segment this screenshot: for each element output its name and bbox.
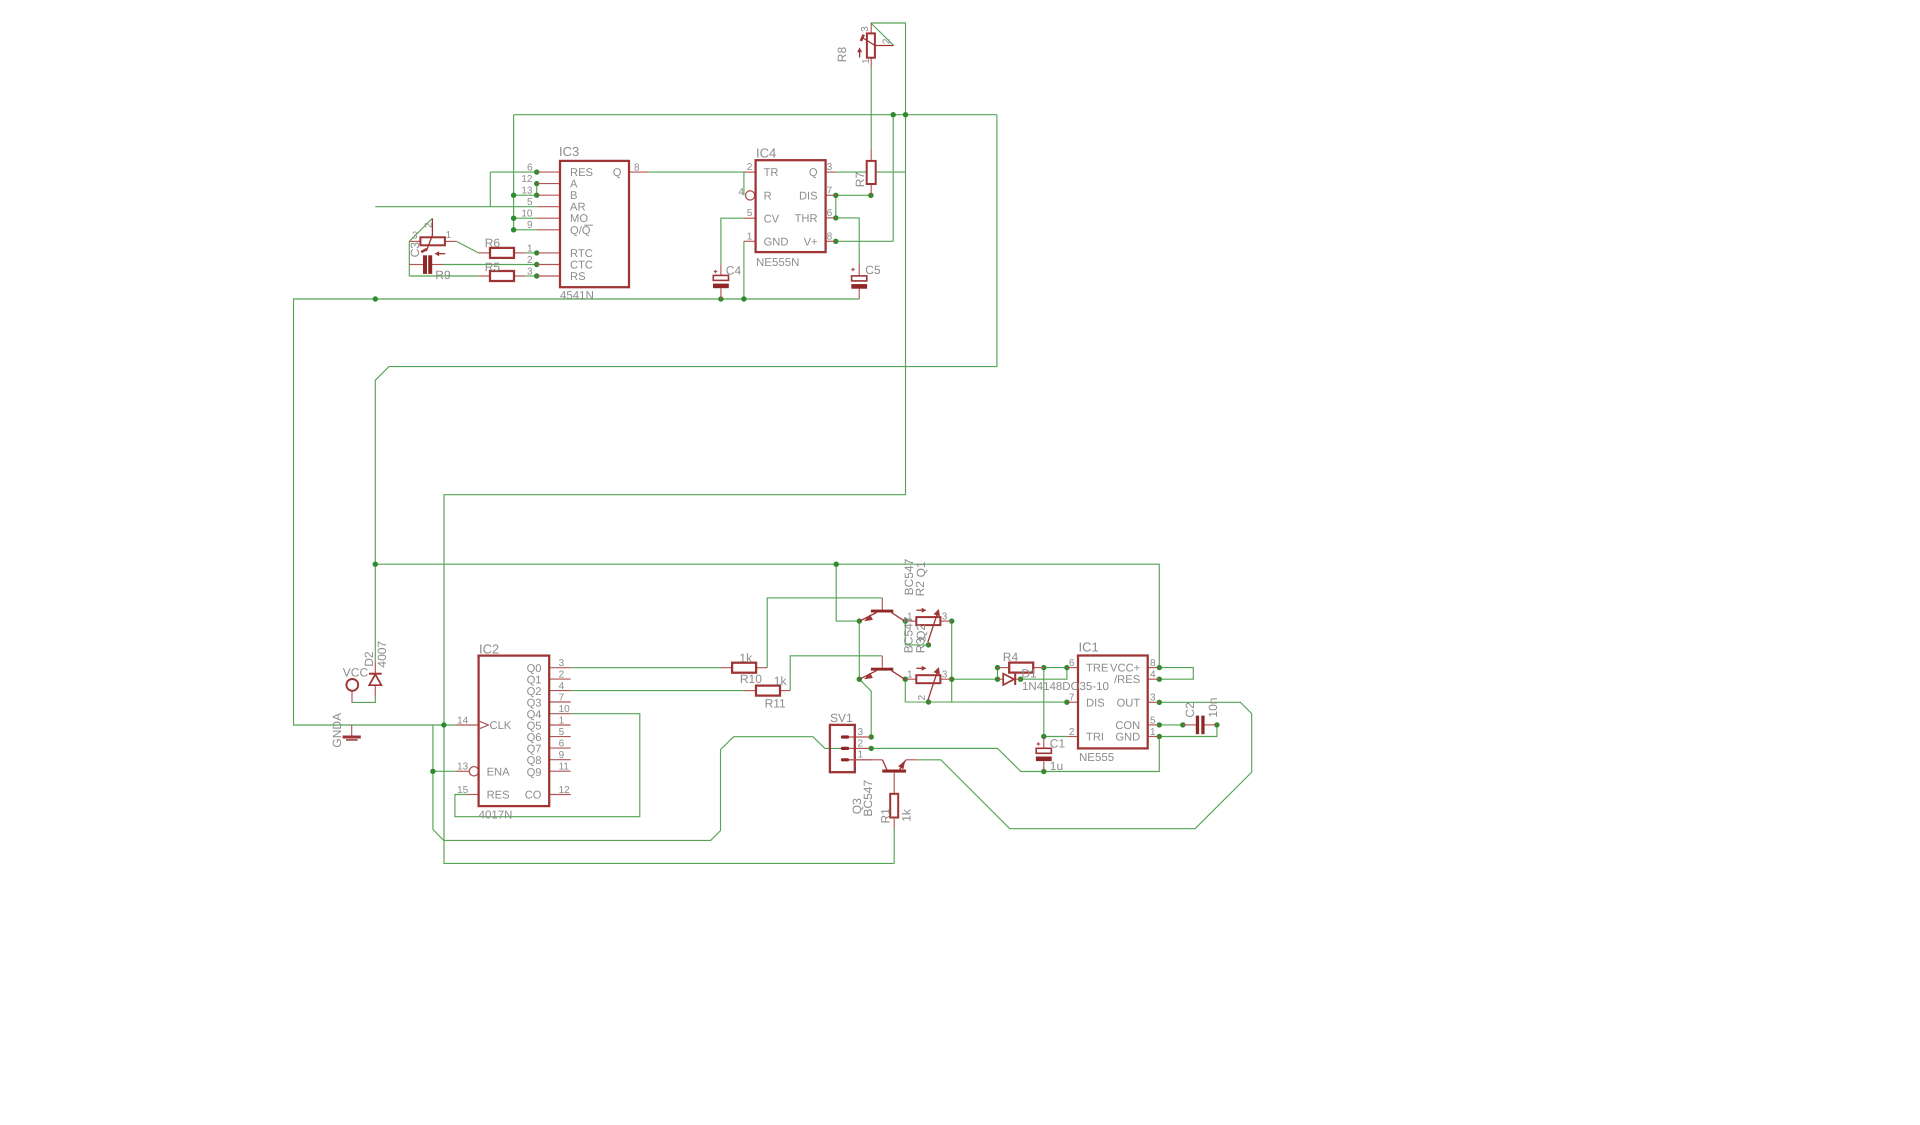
pin stub IC2 right y702 <box>549 701 571 703</box>
svg-text:11: 11 <box>559 762 570 773</box>
svg-text:VCC+: VCC+ <box>1110 663 1140 675</box>
svg-text:CV: CV <box>764 213 780 225</box>
wire IC2 ENA pin13 <box>433 770 456 772</box>
svg-text:DIS: DIS <box>799 190 818 202</box>
pin stub IC2 RES pin15 <box>467 794 479 796</box>
svg-text:IC3: IC3 <box>559 144 579 159</box>
svg-text:1k: 1k <box>774 674 788 688</box>
pin stub IC3 left y207 <box>537 206 560 208</box>
transistor Q3 <box>882 770 906 773</box>
svg-text:AR: AR <box>570 202 586 214</box>
lead C1 bottom <box>1043 762 1045 772</box>
wire IC4 THR to C5 <box>836 218 859 264</box>
svg-text:Q1: Q1 <box>527 674 542 686</box>
svg-text:C4: C4 <box>726 263 742 277</box>
junction IC4 DIS <box>833 193 838 198</box>
junction SV1 pin2 <box>869 746 874 751</box>
junction C2 left <box>1180 722 1185 727</box>
svg-text:Q1: Q1 <box>914 561 928 577</box>
trimmer R8 body <box>867 33 875 57</box>
pin stub IC3 Q pin8 <box>629 171 648 173</box>
trimmer R3 adjust arrow <box>916 667 923 669</box>
pin stub IC3 left y264 <box>537 264 560 266</box>
resistor R10 <box>732 663 756 673</box>
svg-text:GND: GND <box>764 236 789 248</box>
wire IC2 Q2 to R11 <box>571 690 744 692</box>
svg-text:12: 12 <box>521 174 533 185</box>
trimmer R9 adjust arrow <box>438 253 445 255</box>
IC2 CLK triangle <box>479 721 489 729</box>
wire ground trunk: y299 rail, x293 left trunk, CLK wire y725 <box>294 299 860 725</box>
svg-text:Q8: Q8 <box>527 755 542 767</box>
pin stub IC3 left y195 <box>537 194 560 196</box>
lead VCC <box>351 691 353 702</box>
diode D2 <box>369 674 381 685</box>
lead C1 top <box>1043 737 1045 749</box>
junction VCC rail / trunk <box>373 562 378 567</box>
op-amp IC1 NE555 box <box>1078 656 1148 749</box>
junction R2 pin1 <box>903 618 908 623</box>
junction CLK <box>441 722 446 727</box>
svg-text:3: 3 <box>412 231 418 242</box>
pin stub IC4 left y172 <box>744 171 756 173</box>
svg-text:4: 4 <box>1150 670 1156 681</box>
trimmer R2 wiper arrowhead <box>934 609 940 616</box>
svg-text:CLK: CLK <box>490 720 512 732</box>
wire IC2 Q0 to R10 <box>571 667 721 669</box>
pin stub IC3 left y253 <box>537 252 560 254</box>
transistor Q2 emitter arrow <box>864 673 873 680</box>
wire R9 pin3 down to RS net <box>408 241 410 276</box>
svg-text:15: 15 <box>457 785 469 796</box>
pin stub IC3 left y184 <box>537 183 560 185</box>
svg-text:6: 6 <box>527 163 533 174</box>
wire IC3 Q/Q pin9 <box>514 229 537 231</box>
svg-text:IC2: IC2 <box>479 642 499 657</box>
wire IC1 VCC+ to /RES loop <box>1159 668 1193 680</box>
pin stub IC4 left y241 <box>744 240 756 242</box>
wire R3 pin3 to D1 anode <box>952 678 998 680</box>
junction R3 pin1 <box>903 677 908 682</box>
wire VCC rail y564 to IC1 VCC+ <box>375 564 1160 667</box>
lead C3 left <box>409 264 423 266</box>
trimmer R3 wiper <box>928 671 938 700</box>
svg-text:4: 4 <box>559 681 565 692</box>
svg-text:3: 3 <box>827 162 833 173</box>
wire R9 pin3-pin2 diagonal <box>409 218 432 241</box>
svg-text:1: 1 <box>858 750 864 761</box>
svg-text:R1: R1 <box>878 808 892 824</box>
svg-text:CTC: CTC <box>570 259 593 271</box>
lead GNDA <box>351 725 353 736</box>
transistor Q1 emitter arrow <box>864 615 873 622</box>
op-amp IC3 4541N box <box>560 161 629 287</box>
lead Q3 collector pin <box>849 759 882 761</box>
svg-text:/RES: /RES <box>1114 674 1140 686</box>
trimmer R9 wiper <box>426 219 432 252</box>
junction x514 B row <box>511 193 516 198</box>
svg-text:8: 8 <box>634 163 640 174</box>
svg-text:Q3: Q3 <box>527 697 542 709</box>
svg-text:1: 1 <box>907 612 913 623</box>
svg-text:MO: MO <box>570 213 588 225</box>
svg-text:10n: 10n <box>1206 698 1220 718</box>
capacitor C4 plus <box>714 270 718 274</box>
pin stub SV1 y748 <box>849 747 871 749</box>
svg-text:7: 7 <box>1069 693 1075 704</box>
svg-text:C1: C1 <box>1050 737 1066 751</box>
pin stub IC1 right y725 <box>1148 724 1160 726</box>
svg-text:R: R <box>764 190 772 202</box>
pin stub IC2 right y668 <box>549 667 571 669</box>
svg-text:IC1: IC1 <box>1079 640 1099 655</box>
svg-text:Q/Q: Q/Q <box>570 225 591 237</box>
junction y299 / trunk <box>373 296 378 301</box>
pin stub IC1 right y702 <box>1148 701 1160 703</box>
lead C5 bottom <box>858 288 860 299</box>
wire IC4 GND pin1 down <box>743 241 745 299</box>
svg-text:3: 3 <box>527 266 533 277</box>
pin stub IC1 right y736 <box>1148 736 1160 738</box>
pin 4 inversion circle IC4 R <box>746 191 755 200</box>
capacitor C1 plus <box>1037 742 1041 746</box>
wire ENA net loop to SV1 pin2 <box>433 725 871 840</box>
wire Q2 emitter diagonal to SV1 pin3 <box>859 679 871 737</box>
svg-text:Q4: Q4 <box>527 709 542 721</box>
lead Q1 collector <box>891 613 904 622</box>
lead R7 bottom <box>870 184 872 195</box>
wire SV1 pin2 to C1- and IC1 GND <box>871 737 1159 772</box>
wire IC4 V+ riser to top rail <box>892 115 894 242</box>
svg-text:6: 6 <box>1069 658 1075 669</box>
svg-text:CON: CON <box>1115 720 1140 732</box>
wire R8 pin3-pin2 diagonal <box>871 23 894 46</box>
resistor R4 <box>1009 663 1033 673</box>
svg-text:1: 1 <box>559 715 565 726</box>
resistor R7 <box>867 161 876 184</box>
svg-text:2: 2 <box>559 670 565 681</box>
wire IC4 CV to C4 <box>721 218 744 264</box>
lead R1 bottom <box>893 818 895 829</box>
svg-text:RTC: RTC <box>570 248 593 260</box>
pin stub IC2 ENA pin13 <box>456 770 469 772</box>
svg-text:2: 2 <box>858 738 864 749</box>
svg-text:Q5: Q5 <box>527 721 542 733</box>
svg-text:8: 8 <box>827 231 833 242</box>
pin stub IC4 right y218 <box>826 217 836 219</box>
svg-text:13: 13 <box>457 762 469 773</box>
svg-text:1: 1 <box>527 243 533 254</box>
trimmer R2 wiper <box>928 613 938 642</box>
svg-text:R10: R10 <box>740 672 762 686</box>
svg-text:6: 6 <box>559 739 565 750</box>
lead R9 pin1 <box>445 240 457 242</box>
trimmer R9 wiper slot <box>421 249 427 252</box>
svg-text:DIS: DIS <box>1086 697 1105 709</box>
lead R6 left <box>478 252 490 254</box>
svg-text:1k: 1k <box>739 651 753 665</box>
lead R10 right <box>756 667 767 669</box>
svg-text:NE555: NE555 <box>1079 752 1114 764</box>
pin stub IC2 right y737 <box>549 736 571 738</box>
wire RES to AR riser <box>489 172 491 207</box>
lead C2 right <box>1205 724 1217 726</box>
svg-text:1: 1 <box>907 670 913 681</box>
wire top horizontal rail y115 <box>514 114 997 116</box>
lead C4 bottom <box>720 288 722 299</box>
lead C5 top <box>858 264 860 276</box>
svg-text:Q9: Q9 <box>527 767 542 779</box>
wire R9 pin1 diagonal to R6 <box>457 241 479 253</box>
pin stub IC1 left y736 <box>1067 736 1078 738</box>
svg-text:1: 1 <box>1150 727 1156 738</box>
pin stub IC4 right y172 <box>826 171 836 173</box>
wire IC1 CON to C2 <box>1159 724 1183 726</box>
svg-text:Q: Q <box>613 167 622 179</box>
junction C2 right <box>1214 722 1219 727</box>
junction IC1 VCC+ <box>1157 665 1162 670</box>
svg-text:R5: R5 <box>485 260 501 274</box>
pin stub IC2 right y794 <box>549 794 571 796</box>
lead D1 cathode <box>1016 678 1020 680</box>
svg-text:TR: TR <box>764 167 779 179</box>
svg-text:1k: 1k <box>900 808 914 822</box>
wire C3 to IC3 CTC pin2 <box>444 264 537 266</box>
junction C1 bottom <box>1041 769 1046 774</box>
pin 13 inversion circle IC2 ENA <box>469 767 478 776</box>
lead Q1 emitter <box>860 613 877 622</box>
pin stub IC2 right y725 <box>549 724 571 726</box>
svg-text:1u: 1u <box>1050 759 1063 773</box>
wire R8 pin1 to R7 <box>870 68 872 150</box>
junction x514 QQ row <box>511 227 516 232</box>
pin stub IC4 right y195 <box>826 194 836 196</box>
lead R6 right <box>514 252 526 254</box>
wire R3 pin1 to wiper rail to IC1 DIS <box>905 679 1067 702</box>
wire IC3 Q8 to IC4 TR and R <box>648 172 744 195</box>
op-amp IC2 4017N box <box>479 656 550 807</box>
svg-text:Q6: Q6 <box>527 732 542 744</box>
junction D1 cathode <box>1018 677 1023 682</box>
svg-text:3: 3 <box>858 727 864 738</box>
junction R4 right <box>1041 665 1046 670</box>
svg-text:1: 1 <box>861 58 872 64</box>
wire R6 to IC3 RTC pin1 <box>526 252 537 254</box>
wire IC1 GND to C2 right <box>1159 725 1217 737</box>
svg-text:GND: GND <box>1115 732 1140 744</box>
svg-text:R8: R8 <box>835 47 849 63</box>
lead Q3 emitter <box>906 759 917 761</box>
wire vertical x514 rail to IC3 B/MO/QQ <box>513 115 515 230</box>
lead R7 top <box>870 150 872 161</box>
pin stub IC4 right y241 <box>826 240 836 242</box>
lead R4 right <box>1033 667 1044 669</box>
wire VCC rail to Q1 emitter node <box>836 564 859 621</box>
junction IC3 A <box>534 181 539 186</box>
wire R10 to Q1 base <box>767 598 882 668</box>
svg-text:6: 6 <box>827 208 833 219</box>
svg-text:2: 2 <box>1069 727 1075 738</box>
wire IC3 A-B tie <box>536 184 538 196</box>
pin stub IC3 left y172 <box>537 171 560 173</box>
junction IC4 V+ <box>833 239 838 244</box>
pin stub IC3 left y230 <box>537 229 560 231</box>
junction top rail / V+ riser <box>891 112 896 117</box>
svg-text:B: B <box>570 190 577 202</box>
junction IC4 THR <box>833 215 838 220</box>
junction IC1 TRE <box>1064 665 1069 670</box>
svg-text:1: 1 <box>747 231 753 242</box>
svg-text:OUT: OUT <box>1117 697 1141 709</box>
wire R8 top / IC4 Q net long run to R1 bottom <box>444 23 906 863</box>
svg-text:4541N: 4541N <box>560 290 594 302</box>
lead R2 pin1 <box>905 620 916 622</box>
trimmer R8 wiper <box>862 38 894 46</box>
junction D1 anode <box>995 677 1000 682</box>
junction R7 bottom <box>868 193 873 198</box>
trimmer R9 body <box>420 237 445 245</box>
ground GNDA bar <box>343 736 361 739</box>
lead C3 right <box>432 264 444 266</box>
wire D1 cathode up to TRE <box>1021 668 1067 680</box>
svg-text:GNDA: GNDA <box>330 713 344 748</box>
svg-text:TRI: TRI <box>1086 732 1104 744</box>
pin stub IC2 right y679 <box>549 678 571 680</box>
svg-text:CO: CO <box>525 790 542 802</box>
junction IC3 B <box>534 193 539 198</box>
lead R4 left <box>998 667 1010 669</box>
svg-text:Q2: Q2 <box>527 686 542 698</box>
connector SV1 pin bar 1 <box>841 758 849 761</box>
pin stub IC1 right y679 <box>1148 678 1160 680</box>
junction IC3 RTC <box>534 250 539 255</box>
wire IC3 RES pin6 <box>490 171 536 173</box>
svg-text:13: 13 <box>521 186 533 197</box>
svg-text:2: 2 <box>424 222 435 228</box>
wire IC2 Q4 loop to RES pin15 <box>455 714 640 817</box>
svg-text:RES: RES <box>570 167 593 179</box>
capacitor C5 plates <box>852 276 867 281</box>
wire IC4 DIS to R7 bottom <box>836 194 871 196</box>
wire IC4 Q pin3 under R7 <box>836 171 906 173</box>
wire right rail down, across y367, chamfer, trunk x375 to D2 <box>375 115 997 662</box>
junction IC3 CTC <box>534 262 539 267</box>
junction VCC rail / Q1 branch <box>834 562 839 567</box>
junction x514 MO row <box>511 216 516 221</box>
resistor R6 <box>490 248 514 258</box>
junction C4 bottom <box>718 296 723 301</box>
wire IC1 OUT loop to Q3 emitter <box>917 702 1251 828</box>
svg-text:9: 9 <box>527 220 533 231</box>
lead C4 top <box>720 264 722 275</box>
transistor Q1 <box>871 610 893 613</box>
pin stub IC4 left y218 <box>744 217 756 219</box>
transistor Q3 emitter arrow <box>898 760 905 769</box>
junction SV1 pin3 <box>869 734 874 739</box>
connector SV1 box <box>830 725 855 772</box>
svg-text:5: 5 <box>527 197 533 208</box>
svg-text:7: 7 <box>827 185 833 196</box>
lead R10 left <box>720 667 732 669</box>
svg-text:3: 3 <box>942 670 948 681</box>
wire IC3 B pin13 <box>514 194 537 196</box>
wire R1 bottom segment <box>893 828 895 863</box>
junction Q2 emitter <box>857 677 862 682</box>
pin stub IC2 right y691 <box>549 690 571 692</box>
wire IC3 MO pin10 <box>514 217 537 219</box>
lead C2 left <box>1183 724 1196 726</box>
junction R3 wiper <box>926 699 931 704</box>
lead D2 anode <box>374 685 376 696</box>
power VCC circle <box>346 679 358 691</box>
svg-text:Q: Q <box>809 167 818 179</box>
lead R11 left <box>744 690 756 692</box>
svg-text:3: 3 <box>1150 693 1156 704</box>
svg-text:1N4148DO35-10: 1N4148DO35-10 <box>1022 681 1109 693</box>
svg-text:A: A <box>570 179 578 191</box>
svg-text:14: 14 <box>457 715 469 726</box>
svg-text:5: 5 <box>747 208 753 219</box>
svg-text:3: 3 <box>559 658 565 669</box>
lead R5 left <box>478 275 490 277</box>
svg-text:R7: R7 <box>853 172 867 188</box>
svg-text:SV1: SV1 <box>830 711 853 725</box>
svg-text:5: 5 <box>559 727 565 738</box>
junction ENA branch <box>430 769 435 774</box>
op-amp IC4 NE555N box <box>756 160 826 252</box>
svg-text:4: 4 <box>738 187 744 198</box>
lead R3 pin2 <box>928 700 930 702</box>
wire TRE node down to TRI/C1 <box>1044 668 1067 737</box>
svg-text:2: 2 <box>882 38 893 44</box>
svg-text:C3: C3 <box>408 242 422 258</box>
pin stub IC2 right y748 <box>549 747 571 749</box>
pin stub IC2 right y760 <box>549 759 571 761</box>
pin stub SV1 y737 <box>849 736 871 738</box>
svg-text:2: 2 <box>527 255 533 266</box>
svg-text:C5: C5 <box>865 263 881 277</box>
svg-text:R4: R4 <box>1003 650 1019 664</box>
lead R9 pin3 <box>409 240 420 242</box>
lead R2 pin3 <box>940 620 951 622</box>
svg-text:R2: R2 <box>913 581 927 597</box>
wire IC4 DIS-THR tie <box>835 195 837 218</box>
svg-text:NE555N: NE555N <box>756 257 799 269</box>
lead Q2 base <box>881 656 883 668</box>
lead R2 pin2 <box>928 642 930 645</box>
transistor Q2 <box>871 668 893 671</box>
lead D1 anode <box>998 678 1004 680</box>
lead R5 right <box>514 275 526 277</box>
capacitor C1 plates <box>1036 748 1051 753</box>
wire R2 pin1 to wiper <box>905 621 928 645</box>
lead Q2 emitter <box>860 671 877 680</box>
trimmer R3 wiper arrowhead <box>934 667 940 674</box>
capacitor C5 plus <box>851 268 855 272</box>
trimmer R3 body <box>916 675 940 683</box>
junction TRI / C1 <box>1041 734 1046 739</box>
svg-text:2: 2 <box>747 162 753 173</box>
wire VCC symbol to D2 anode <box>352 697 375 703</box>
wire R4 left to D1 anode tie <box>997 668 999 680</box>
wire IC4 V+ pin8 <box>836 240 893 242</box>
junction IC1 GND <box>1157 734 1162 739</box>
pin stub IC3 left y218 <box>537 217 560 219</box>
trimmer R8 wiper slot <box>861 35 864 41</box>
junction IC4 GND bottom <box>741 296 746 301</box>
svg-text:V+: V+ <box>804 236 818 248</box>
junction IC1 OUT <box>1157 700 1162 705</box>
